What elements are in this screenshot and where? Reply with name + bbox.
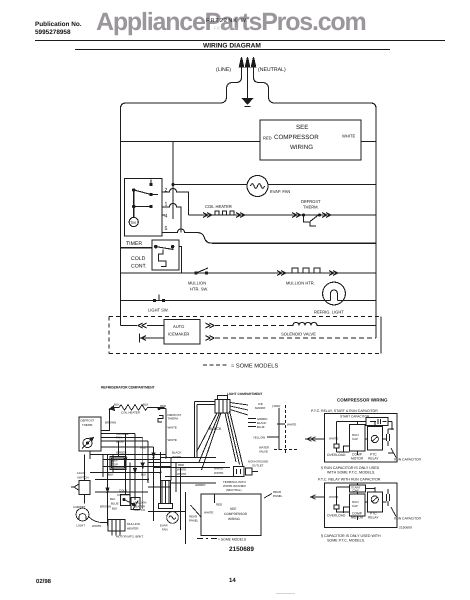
wire bundle labels center [172,451,205,488]
defrost thermostat [292,213,331,227]
svg-text:CAP: CAP [352,504,358,508]
svg-text:WIRING: WIRING [228,517,240,521]
svg-text:(J300): (J300) [272,404,280,408]
overload symbol 1 [327,422,366,458]
svg-text:BLK: BLK [141,473,147,477]
cabinet outline top with plug bump [121,77,242,326]
wire contact2 with hop [162,189,189,215]
wire red drop from coil heater [158,407,160,409]
evap fan top feed [148,511,185,513]
svg-text:BLK: BLK [112,507,118,511]
svg-text:BLK: BLK [110,497,116,501]
cabinet light [73,505,89,528]
label DEFROST THERM. [301,199,321,210]
harness cross rows center [161,457,217,459]
svg-text:REFRIG. LIGHT: REFRIG. LIGHT [314,310,344,315]
dashed wire to solenoid [215,325,291,327]
svg-text:WHITE: WHITE [168,426,177,430]
svg-text:FRT22NK W: FRT22NK W [206,18,247,24]
svg-text:TM: TM [130,220,136,225]
svg-text:(LINE): (LINE) [216,67,231,73]
dashed box left [108,317,110,354]
svg-text:(NEUTRAL): (NEUTRAL) [258,67,286,73]
svg-text:MOTOR: MOTOR [351,457,364,461]
svg-text:COMPRESSOR: COMPRESSOR [274,134,319,141]
solenoid valve coil [291,322,319,325]
svg-text:= SOME MODELS: = SOME MODELS [218,538,247,542]
label WATER VALVE [259,446,269,454]
title underline [75,49,390,51]
timer box [125,179,163,237]
wire contact1 with hop [162,204,181,233]
svg-text:OVERLOAD: OVERLOAD [327,453,346,457]
defrost heater narrow box [161,481,171,504]
light switch label [77,471,88,479]
start capacitor symbol 1 [366,418,388,426]
coil heater element top [110,403,167,415]
svg-text:RED: RED [178,463,184,467]
connector terminal row2 [140,334,165,343]
note capacitor only used 2 [321,534,381,543]
svg-text:COMPRESSOR: COMPRESSOR [224,512,248,516]
svg-text:THERM.: THERM. [303,205,319,210]
grounded outlet label [248,460,268,468]
svg-text:COIL HEATER: COIL HEATER [121,411,140,415]
dashed water valve wire [274,449,298,451]
svg-text:THERM: THERM [82,423,93,427]
svg-text:VALVE: VALVE [259,450,268,454]
ground symbol [243,99,253,107]
start capacitor symbol 2 [350,485,366,493]
svg-text:BROWN: BROWN [105,421,116,425]
box2 internal wires [344,483,387,520]
svg-text:TIMER: TIMER [126,241,142,247]
legend SOME MODELS [203,364,278,370]
compressor box 2 [325,483,398,528]
svg-text:WHITE: WHITE [329,495,338,499]
svg-text:CAP: CAP [352,437,358,441]
svg-text:WHITE: WHITE [329,437,338,441]
harness chevrons [106,453,156,492]
evap fan motor [247,176,268,197]
vertical harness comb [102,455,104,478]
bottom artifact line [276,592,295,594]
svg-text:SEE: SEE [296,124,308,131]
svg-text:GREEN: GREEN [195,483,205,487]
svg-text:PANEL: PANEL [273,494,283,498]
diagonal to evap fan [191,505,202,517]
svg-text:14: 14 [229,577,236,584]
svg-text:WHITE: WHITE [214,471,223,475]
svg-text:WIRING: WIRING [290,144,313,151]
svg-text:SOME P.T.C. MODELS.: SOME P.T.C. MODELS. [327,539,365,543]
cold control symbol [121,495,135,506]
mullion heater switch [195,268,208,274]
svg-text:SWITCH: SWITCH [134,508,145,512]
svg-text:LIGHT: LIGHT [77,524,86,528]
svg-text:COIL HEATER: COIL HEATER [205,204,232,209]
svg-text:WITH SOME P.T.C. MODELS.: WITH SOME P.T.C. MODELS. [327,471,375,475]
light switch symbol [71,481,90,495]
overload symbol 2 [327,487,350,518]
svg-text:2150689: 2150689 [229,546,254,553]
svg-text:WHITE: WHITE [342,134,355,139]
rear panel label lower [189,515,199,523]
svg-text:COLD: COLD [131,256,146,262]
wire coil heater row [189,214,377,216]
svg-text:WHITE: WHITE [92,524,101,528]
svg-text:REFRIGERATOR COMPARTMENT: REFRIGERATOR COMPARTMENT [101,386,156,390]
cross wires left block [90,454,166,456]
wire into compressor box 2 [310,496,325,498]
wire light switch row [121,300,377,302]
svg-text:WHITE: WHITE [168,438,177,442]
svg-text:PANEL: PANEL [189,519,199,523]
ptc relay rect 1 [368,427,383,451]
svg-text:CAP: CAP [353,489,359,493]
svg-text:WHITE: WHITE [287,423,296,427]
svg-text:HTR. SW.: HTR. SW. [190,287,208,292]
defrost thermostat symbol [82,438,94,449]
label COLD CONT. [131,256,147,270]
icemaker wire stubs [248,418,256,420]
wire coil heater to defrost therm [101,410,110,431]
svg-text:SOLENOID VALVE: SOLENOID VALVE [281,332,316,337]
svg-text:WHITE: WHITE [214,467,223,471]
defrost therm mid symbol [158,416,163,423]
svg-text:2150689: 2150689 [399,526,412,530]
dashed return wire row2 [215,337,376,339]
svg-text:(NEUTRAL): (NEUTRAL) [226,488,241,492]
svg-text:COMPRESSOR WIRING: COMPRESSOR WIRING [337,398,388,403]
wire compressor box to right [361,141,376,143]
svg-text:4: 4 [165,214,168,220]
evap fan motor lower [167,512,179,524]
note run capacitor only used [321,466,380,475]
svg-text:OVERLOAD: OVERLOAD [327,514,346,518]
svg-text:WHITE: WHITE [172,455,181,459]
svg-text:OUTLET: OUTLET [252,464,264,468]
svg-text:RUN CAPACITOR: RUN CAPACITOR [394,517,422,521]
svg-text:BLK: BLK [114,403,120,407]
comp motor rect 1 [350,425,366,452]
svg-text:BLK: BLK [143,403,149,407]
refrigerator light [323,282,346,305]
cabinet outline right side [254,77,377,338]
dashed icemaker vertical [285,405,287,453]
run capacitor plates 1 [387,429,395,453]
comp motor rect 2 [350,494,366,516]
compressor box 1 [325,414,398,463]
label MULLION HTR. SW. [188,281,208,292]
wire contact5 with hop [162,229,376,243]
svg-text:LIGHT COMPARTMENT: LIGHT COMPARTMENT [227,392,262,396]
svg-text:MULLION: MULLION [188,281,206,286]
label terminal with white washer [223,480,246,492]
auto icemaker box [164,320,200,345]
svg-text:2: 2 [165,188,168,194]
svg-text:5: 5 [165,226,168,232]
svg-text:RELAY: RELAY [368,457,379,461]
wire evap fan row [173,184,376,186]
connector chevrons right row1 [206,323,215,328]
defrost therm box bottom drop [89,451,91,459]
svg-text:WHITE: WHITE [204,511,213,515]
mullion heater element [277,268,338,276]
run capacitor plates 2 [387,489,390,506]
wire left to compressor box [121,141,261,143]
svg-text:HEATER: HEATER [127,526,139,530]
wire cold control to mullion row [179,247,182,273]
svg-text:P.T.C. RELAY, START & RUN CAPA: P.T.C. RELAY, START & RUN CAPACITOR [311,409,378,413]
svg-text:MAKER: MAKER [255,406,265,410]
svg-text:RED: RED [263,136,272,141]
wire red row [101,446,154,448]
svg-text:RED: RED [216,503,222,507]
svg-text:P.T.C. RELAY WITH RUN CAPACITO: P.T.C. RELAY WITH RUN CAPACITOR [318,478,381,482]
wire cabinet light to mullion heater [89,517,108,523]
svg-text:BLUE: BLUE [257,425,265,429]
svg-text:WIRING DIAGRAM: WIRING DIAGRAM [203,43,261,50]
run capacitor leader 1 [391,448,396,458]
svg-text:YELLOW: YELLOW [253,436,265,440]
dashed box bottom [109,353,381,355]
cold control box [152,240,179,270]
door hinge connector block [215,396,230,414]
publication number [35,21,82,36]
timer contacts [133,180,159,208]
svg-text:SWITCH: SWITCH [77,475,88,479]
wire into box [214,494,216,503]
svg-text:AUTO: AUTO [173,324,184,329]
svg-text:02/98: 02/98 [36,578,52,585]
rear panel label upper [273,490,283,498]
wire light switch drop [84,495,86,504]
header rule [35,40,445,42]
svg-text:§ CAPACITOR IS ONLY USED WITH: § CAPACITOR IS ONLY USED WITH [321,534,381,538]
defrost heater bottom block [159,504,173,509]
see compressor wiring box lower [201,494,261,536]
svg-text:BLUE: BLUE [116,439,124,443]
svg-text:§ RUN CAPACITOR IS ONLY USED: § RUN CAPACITOR IS ONLY USED [321,466,380,470]
svg-text:= SOME MODELS: = SOME MODELS [231,364,278,370]
svg-text:WHITE: WHITE [177,472,186,476]
power plug symbol [234,467,259,477]
svg-text:RELAY: RELAY [368,516,379,520]
svg-text:GREEN: GREEN [116,451,126,455]
long center vertical [184,492,186,544]
ptc relay rect 2 [368,492,383,512]
svg-text:FAN: FAN [162,528,168,532]
svg-text:BLK: BLK [108,473,114,477]
dashed box right [380,317,382,354]
light switch [153,295,164,302]
cold control contacts [155,245,174,266]
legend some models lower [197,538,247,542]
svg-text:START CAPACITOR: START CAPACITOR [340,415,370,419]
plug prong LINE [239,57,243,77]
defrost thermostat box [79,417,101,451]
label ICE MAKER (J300) [255,402,280,410]
svg-text:EVAP. FAN: EVAP. FAN [270,189,290,194]
plug prong NEUTRAL [251,57,255,77]
run capacitor leader 2 [391,507,396,517]
harness extra horizontals [103,459,160,461]
svg-text:BROWN: BROWN [100,505,111,509]
svg-text:ICEMAKER: ICEMAKER [168,332,189,337]
contact 4 stub [162,214,165,216]
svg-text:CONT.: CONT. [131,264,147,270]
cold control label [117,489,132,497]
svg-text:5995278958: 5995278958 [35,29,71,36]
wires from defrost therm box right [101,433,135,435]
node feed vertical from RED wire [172,142,174,220]
svg-text:Publication No.: Publication No. [35,21,82,28]
svg-text:DEFROST: DEFROST [301,199,321,204]
plug prong ground middle [245,57,249,98]
timer motor TM [129,190,138,227]
svg-text:LIGHT SW.: LIGHT SW. [148,308,169,313]
door harness diagonals [197,411,244,470]
connector chevrons left row1 [138,323,147,328]
svg-text:BLACK: BLACK [172,451,182,455]
wires door block to icemaker plug [230,403,248,406]
mullion heater box tails [111,531,113,536]
wire into compressor box 1 [305,438,325,440]
svg-text:SEE: SEE [230,507,236,511]
wire labels blk blue [100,497,119,511]
coil heater element [203,211,245,218]
wire mullion heater row [121,272,377,274]
harness extra verticals [112,455,114,473]
svg-text:RUN CAPACITOR: RUN CAPACITOR [394,458,422,462]
wire icemaker feed [121,325,138,327]
svg-text:RED: RED [160,404,166,408]
svg-text:THERM.: THERM. [168,417,179,421]
svg-text:DEFROST: DEFROST [81,419,95,423]
door cable verticals [194,402,196,458]
ref top box [110,457,126,470]
junction dots lower [107,457,168,494]
box1 internal wires [344,422,393,456]
svg-text:FRT22NKW: FRT22NKW [214,26,239,31]
wire cold control row [121,247,153,249]
compressor note box [260,120,361,160]
connector chevrons right row2 [206,336,215,341]
dashed box some models top [109,316,381,318]
svg-text:BLUE: BLUE [111,502,119,506]
svg-text:MULLION HTR.: MULLION HTR. [286,281,315,286]
mullion heater switch symbol [131,498,140,510]
svg-text:WHITE: WHITE [177,468,186,472]
mullion heater box [108,520,125,532]
